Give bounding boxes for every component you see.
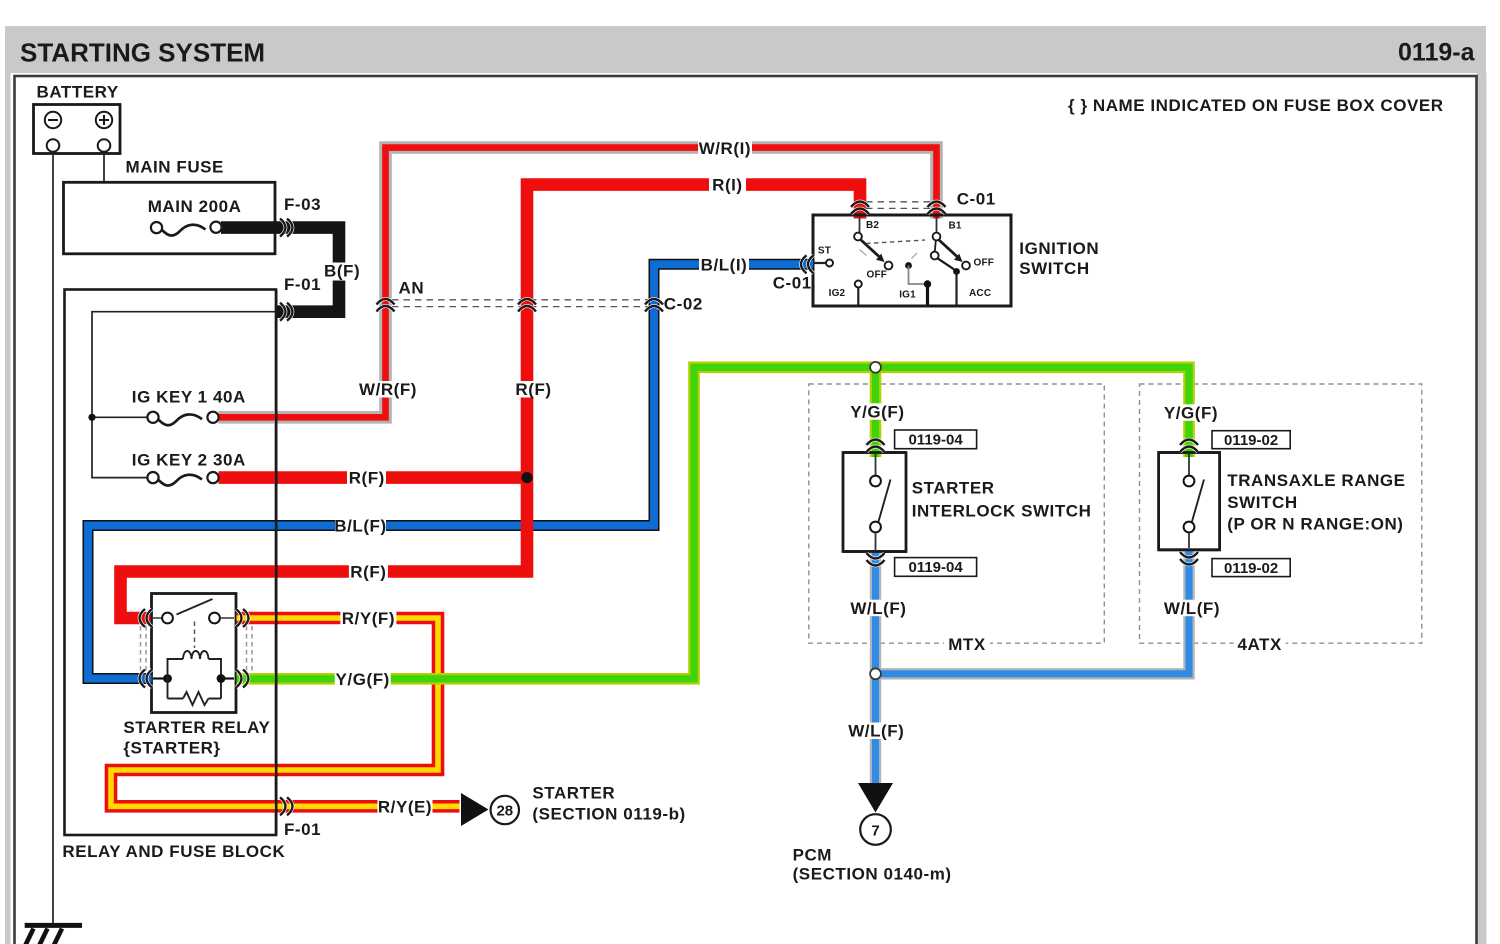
ignition IG1 elbow wire xyxy=(909,266,926,285)
wire Y/G yellow-green: relay coil to switches xyxy=(237,367,1190,679)
relay contact circle right xyxy=(209,613,220,624)
svg-text:Y/G(F): Y/G(F) xyxy=(850,403,904,422)
connector chevron AN on W/R xyxy=(377,299,395,312)
svg-text:STARTER: STARTER xyxy=(532,783,615,802)
svg-text:(SECTION 0140-m): (SECTION 0140-m) xyxy=(793,865,952,884)
svg-text:0119-02: 0119-02 xyxy=(1224,560,1278,577)
ignition pin ACC lead xyxy=(955,272,957,305)
svg-text:STARTER: STARTER xyxy=(912,479,995,498)
svg-text:C-01: C-01 xyxy=(957,190,996,209)
wire battery negative to ground xyxy=(52,152,54,925)
svg-text:28: 28 xyxy=(496,803,513,820)
svg-text:INTERLOCK SWITCH: INTERLOCK SWITCH xyxy=(912,502,1092,521)
svg-text:{STARTER}: {STARTER} xyxy=(123,739,220,758)
svg-text:OFF: OFF xyxy=(974,258,995,269)
connector chevron C-01 on R xyxy=(851,202,869,215)
svg-text:RELAY AND FUSE BLOCK: RELAY AND FUSE BLOCK xyxy=(62,842,285,861)
junction dot R wires xyxy=(521,472,532,483)
connector chevron relay left top xyxy=(140,609,153,627)
connector chevron C-01 on B/L xyxy=(801,255,814,273)
svg-text:MAIN 200A: MAIN 200A xyxy=(148,197,242,216)
wire label R(F) at IG KEY 2 xyxy=(347,469,386,488)
wire label B/L(F) xyxy=(334,517,386,536)
svg-text:BATTERY: BATTERY xyxy=(37,83,119,102)
wire label B/L(I) xyxy=(699,255,749,274)
svg-text:W/R(F): W/R(F) xyxy=(359,380,417,399)
connector chevron interlock top xyxy=(867,440,885,453)
wire label W/R(F) xyxy=(359,380,417,399)
transaxle range switch box xyxy=(1159,453,1220,550)
connector chevron interlock bottom xyxy=(867,553,885,566)
relay connector dashed link left xyxy=(141,626,147,671)
connector chevron C-01 on W/R xyxy=(928,202,946,215)
reference box 0119-02 lower xyxy=(1212,559,1290,577)
battery negative terminal xyxy=(45,112,61,152)
right gray page strip xyxy=(1477,73,1487,944)
wire label Y/G(F) MTX xyxy=(849,403,905,422)
relay contact circle left xyxy=(162,613,173,624)
main fuse box xyxy=(64,182,276,254)
svg-text:SWITCH: SWITCH xyxy=(1019,259,1089,278)
ignition switch box xyxy=(813,215,1011,306)
wire W/L white-blue: interlock switch to PCM xyxy=(870,551,881,784)
svg-text:IGNITION: IGNITION xyxy=(1019,239,1099,258)
battery BATTERY box xyxy=(34,105,121,154)
wire W/L branch from transaxle range switch xyxy=(878,550,1189,674)
starter arrow triangle xyxy=(461,793,489,826)
ignition terminal ST lead xyxy=(813,262,826,264)
transaxle range switch interior xyxy=(1184,454,1204,548)
relay junction dot left xyxy=(163,674,172,683)
wire label R/Y(F) xyxy=(340,609,396,628)
relay connector dashed link right xyxy=(247,626,253,671)
fuse IG KEY 1 element xyxy=(147,412,218,426)
svg-text:F-01: F-01 xyxy=(284,275,321,294)
battery positive terminal xyxy=(96,112,112,152)
relay and fuse block box xyxy=(65,290,277,836)
box label 4ATX xyxy=(1234,634,1286,654)
ignition mechanical link dashed xyxy=(866,240,925,244)
relay coil loop frame xyxy=(168,659,222,699)
PCM circle 7 xyxy=(860,814,891,845)
relay contact lead left xyxy=(153,617,162,619)
svg-text:C-01: C-01 xyxy=(773,274,812,293)
svg-text:PCM: PCM xyxy=(793,846,832,865)
ignition contact IG2 xyxy=(855,281,862,288)
svg-text:R(F): R(F) xyxy=(349,469,385,488)
svg-text:B/L(I): B/L(I) xyxy=(701,255,748,274)
wire W/R white-red: IG KEY1 to ignition B1 xyxy=(219,148,937,418)
relay resistor zigzag xyxy=(183,692,209,705)
wire label W/L(F) MTX xyxy=(850,599,906,618)
ignition box top edge overlay xyxy=(813,214,1011,217)
relay contact lead right xyxy=(221,617,235,619)
svg-text:C-02: C-02 xyxy=(664,295,703,314)
svg-text:AN: AN xyxy=(399,279,425,298)
starter interlock switch box xyxy=(843,453,906,552)
label B(F) xyxy=(321,261,362,280)
svg-text:W/R(I): W/R(I) xyxy=(699,139,751,158)
svg-text:ACC: ACC xyxy=(969,288,991,299)
connector chevron F-03 xyxy=(280,219,293,237)
ignition lever B1-ACC xyxy=(931,241,954,270)
connector C-01 dashed boundary xyxy=(866,202,931,209)
gray header bar xyxy=(5,26,1486,73)
svg-text:IG KEY 1 40A: IG KEY 1 40A xyxy=(132,387,246,406)
svg-text:0119-04: 0119-04 xyxy=(908,432,963,449)
relay coil lead left xyxy=(153,677,164,679)
svg-text:B2: B2 xyxy=(866,220,879,231)
internal bus branch to IG KEY 1 xyxy=(92,416,148,418)
svg-text:W/L(F): W/L(F) xyxy=(848,722,904,741)
connector chevron C-02 on R xyxy=(518,299,536,312)
ignition pin IG1 lead xyxy=(926,284,929,305)
svg-text:SWITCH: SWITCH xyxy=(1227,493,1297,512)
svg-text:7: 7 xyxy=(871,823,879,840)
relay coil lead right xyxy=(225,677,234,679)
relay coil inductor bumps xyxy=(183,651,209,659)
connector chevron relay right top xyxy=(236,609,249,627)
wire label R(F) lower xyxy=(349,563,388,582)
connector chevron transaxle bottom xyxy=(1180,552,1198,565)
svg-text:W/L(F): W/L(F) xyxy=(1164,599,1220,618)
svg-text:OFF: OFF xyxy=(867,270,888,281)
ignition contact B2 xyxy=(854,233,862,241)
svg-text:0119-a: 0119-a xyxy=(1398,39,1476,67)
svg-text:STARTING SYSTEM: STARTING SYSTEM xyxy=(20,38,265,68)
svg-text:R(I): R(I) xyxy=(712,176,743,195)
reference box 0119-04 upper xyxy=(895,430,977,449)
svg-text:Y/G(F): Y/G(F) xyxy=(336,670,390,689)
relay lever xyxy=(177,599,213,615)
svg-text:{ } NAME INDICATED ON FUSE BOX: { } NAME INDICATED ON FUSE BOX COVER xyxy=(1068,96,1444,115)
connector chevron relay right bottom xyxy=(236,670,249,688)
wire B(F) black thick from main fuse to F-01 xyxy=(221,228,339,312)
svg-text:F-03: F-03 xyxy=(284,195,321,214)
ignition position tick left xyxy=(860,250,867,256)
ignition contact B1 xyxy=(933,233,941,241)
wire Y/G branch to starter interlock switch xyxy=(870,367,882,457)
wire label R/Y(E) xyxy=(378,797,433,816)
4ATX dashed box xyxy=(1140,384,1422,643)
wire label W/L(F) lower xyxy=(848,722,904,741)
ignition contact OFF right xyxy=(962,262,970,270)
relay mechanical link dashed xyxy=(194,622,196,649)
connector chevron C-02 on B/L xyxy=(645,299,663,312)
svg-text:(SECTION 0119-b): (SECTION 0119-b) xyxy=(532,804,685,823)
connector chevron F-01 top xyxy=(280,303,293,321)
ignition position tick IG1 xyxy=(912,253,918,259)
wire label R(F) vertical xyxy=(514,380,553,399)
wire battery positive to main fuse xyxy=(104,152,152,228)
starter circle 28 xyxy=(491,796,519,824)
wire R red: ignition B2 / fuses / relay contact xyxy=(121,185,861,618)
ignition lever B1-OFF with arrowhead xyxy=(939,240,963,262)
wire label R(I) xyxy=(709,176,746,195)
relay block right edge overlay xyxy=(275,290,278,836)
relay junction dot right xyxy=(217,674,226,683)
ignition pin IG2 lead xyxy=(857,288,859,305)
interlock box edge overlays xyxy=(843,451,906,454)
svg-text:Y/G(F): Y/G(F) xyxy=(1164,404,1218,423)
wire label W/L(F) 4ATX xyxy=(1164,599,1220,618)
box label MTX xyxy=(944,634,990,654)
junction circle W/L xyxy=(870,668,881,679)
connector chevron transaxle top xyxy=(1180,440,1198,453)
fuse MAIN 200A element xyxy=(151,222,222,236)
svg-text:R(F): R(F) xyxy=(350,563,386,582)
svg-text:W/L(F): W/L(F) xyxy=(850,599,906,618)
ground symbol xyxy=(25,925,83,944)
ignition contact OFF left xyxy=(885,262,893,270)
transaxle box edge overlays xyxy=(1159,451,1220,454)
svg-text:MAIN FUSE: MAIN FUSE xyxy=(126,158,224,177)
svg-text:0119-04: 0119-04 xyxy=(908,559,963,576)
wire B/L blue: relay coil to ignition ST xyxy=(88,264,813,678)
svg-text:MTX: MTX xyxy=(948,635,986,654)
internal bus wire from F-01 to fuses xyxy=(92,312,276,478)
wire label Y/G(F) 4ATX xyxy=(1163,404,1219,423)
MTX dashed box xyxy=(809,384,1105,643)
svg-text:B(F): B(F) xyxy=(324,261,360,280)
svg-text:R(F): R(F) xyxy=(515,380,551,399)
starter interlock switch interior xyxy=(870,454,890,550)
ignition junction dot IG1 xyxy=(924,280,931,287)
ignition contact IG1 dot xyxy=(905,262,912,269)
svg-text:R/Y(F): R/Y(F) xyxy=(342,609,395,628)
ignition pin B2 lead xyxy=(859,216,861,233)
ignition contact ST xyxy=(826,260,833,267)
svg-text:B1: B1 xyxy=(949,221,962,232)
PCM arrow triangle xyxy=(858,783,893,813)
left gray page strip xyxy=(5,26,11,944)
connector chevron F-01 bottom xyxy=(280,797,293,815)
svg-text:0119-02: 0119-02 xyxy=(1224,432,1278,449)
junction circle Y/G xyxy=(870,362,881,373)
svg-text:B/L(F): B/L(F) xyxy=(334,517,386,536)
wire R(F) branch from IG KEY 2 xyxy=(219,471,528,484)
ignition contact ACC dot xyxy=(953,268,960,275)
connector AN/C-02 dashed boundary xyxy=(392,300,649,307)
fuse IG KEY 2 element xyxy=(147,472,218,486)
wire label Y/G(F) horizontal xyxy=(335,670,391,689)
starter relay box xyxy=(152,594,237,713)
svg-text:F-01: F-01 xyxy=(284,820,321,839)
svg-text:IG1: IG1 xyxy=(899,290,916,301)
reference box 0119-02 upper xyxy=(1212,431,1290,449)
ignition lever B2-OFF with arrowhead xyxy=(861,240,885,262)
svg-text:4ATX: 4ATX xyxy=(1237,635,1282,654)
svg-text:(P OR N RANGE:ON): (P OR N RANGE:ON) xyxy=(1227,515,1403,534)
svg-text:IG KEY 2 30A: IG KEY 2 30A xyxy=(132,450,246,469)
junction dot internal bus xyxy=(88,414,95,421)
reference box 0119-04 lower xyxy=(895,558,977,577)
svg-text:R/Y(E): R/Y(E) xyxy=(378,797,432,816)
wire label W/R(I) xyxy=(698,139,752,158)
wire R/Y red-yellow: relay contact to starter xyxy=(111,618,460,806)
ignition pin B1 lead xyxy=(936,216,938,233)
svg-text:TRANSAXLE RANGE: TRANSAXLE RANGE xyxy=(1227,471,1405,490)
connector chevron relay left bottom xyxy=(140,670,153,688)
svg-text:STARTER RELAY: STARTER RELAY xyxy=(123,718,270,737)
svg-text:ST: ST xyxy=(818,246,831,257)
svg-text:IG2: IG2 xyxy=(829,288,846,299)
